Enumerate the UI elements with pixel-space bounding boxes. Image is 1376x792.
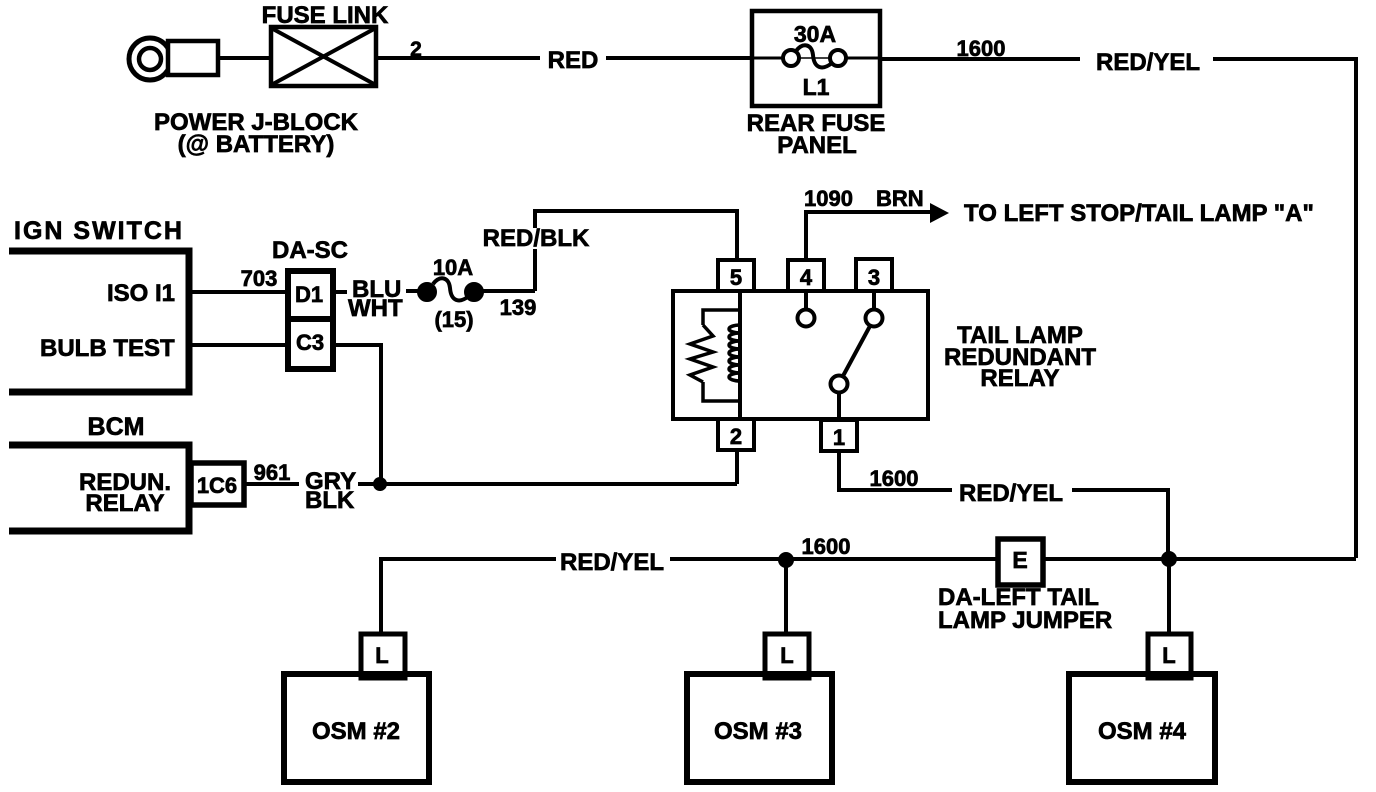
svg-text:BRN: BRN xyxy=(876,186,924,211)
wire GRY BLK to relay pin 2 xyxy=(358,482,737,486)
fuse link F (box with X) xyxy=(271,27,376,86)
OSM #4 box xyxy=(1069,674,1215,782)
relay coil bracket xyxy=(703,310,740,325)
wire rear fuse panel to RED/YEL xyxy=(880,57,1080,61)
svg-text:L1: L1 xyxy=(803,74,830,100)
svg-text:BCM: BCM xyxy=(88,413,145,441)
svg-text:RELAY: RELAY xyxy=(85,490,164,517)
relay common contact xyxy=(831,376,848,393)
wire RED/YEL to junction at OSM4 xyxy=(1072,490,1168,559)
svg-text:E: E xyxy=(1012,547,1027,573)
arrowhead xyxy=(930,203,949,223)
svg-text:4: 4 xyxy=(800,265,813,290)
svg-text:WHT: WHT xyxy=(348,295,403,322)
BCM box xyxy=(9,445,189,531)
svg-text:BLK: BLK xyxy=(305,487,355,514)
svg-text:5: 5 xyxy=(730,265,742,290)
svg-text:L: L xyxy=(1162,643,1175,668)
relay pin 3 xyxy=(856,259,892,291)
relay contact under pin 4 xyxy=(804,291,808,310)
svg-text:1090: 1090 xyxy=(804,186,853,211)
junction dot GRY BLK / C3 xyxy=(373,477,387,491)
relay coil resistor zigzag xyxy=(690,325,713,382)
bottom bus wire to E connector xyxy=(670,557,998,561)
connector L of OSM2 xyxy=(361,634,405,678)
wire C3 to junction xyxy=(332,345,381,484)
svg-text:10A: 10A xyxy=(433,255,473,280)
wire down to OSM4 xyxy=(1167,559,1171,636)
relay pin 5 xyxy=(718,260,754,291)
connector 1C6 xyxy=(191,463,244,505)
svg-text:L: L xyxy=(780,643,793,668)
wire 1C6 to GRY BLK xyxy=(244,482,299,486)
svg-text:RED/YEL: RED/YEL xyxy=(1096,49,1200,76)
svg-text:1C6: 1C6 xyxy=(197,473,237,498)
svg-text:TO LEFT STOP/TAIL LAMP "A": TO LEFT STOP/TAIL LAMP "A" xyxy=(964,200,1314,227)
relay coil winding xyxy=(729,325,740,381)
fuse L1 symbol xyxy=(752,45,880,67)
wire fuse to corner xyxy=(482,289,535,293)
svg-text:(@ BATTERY): (@ BATTERY) xyxy=(178,131,335,158)
svg-text:LAMP JUMPER: LAMP JUMPER xyxy=(938,607,1112,634)
OSM #3 box xyxy=(687,674,832,782)
connector L of OSM4 xyxy=(1148,634,1191,678)
power j-block body xyxy=(168,41,218,75)
wire BULB TEST to C3 xyxy=(189,343,286,347)
OSM #2 box xyxy=(284,674,429,782)
svg-text:OSM #3: OSM #3 xyxy=(714,718,802,745)
svg-text:RED/YEL: RED/YEL xyxy=(560,549,664,576)
svg-text:1: 1 xyxy=(833,425,845,450)
wire ISO I1 to D1 xyxy=(189,290,285,294)
svg-text:1600: 1600 xyxy=(802,534,851,559)
rear fuse panel box xyxy=(752,11,880,106)
relay contact under pin 3 xyxy=(872,291,876,310)
wire pin 2 down xyxy=(735,450,739,484)
svg-text:RED/YEL: RED/YEL xyxy=(959,480,1063,507)
wire fuse link to RED label xyxy=(376,56,540,60)
svg-text:OSM #4: OSM #4 xyxy=(1098,718,1187,745)
svg-text:RED: RED xyxy=(548,47,599,74)
wire D1 stub xyxy=(332,290,347,294)
svg-text:RELAY: RELAY xyxy=(980,365,1059,392)
svg-text:PANEL: PANEL xyxy=(777,132,857,159)
svg-text:961: 961 xyxy=(254,460,291,485)
svg-text:DA-SC: DA-SC xyxy=(272,237,348,264)
wire up and over to relay pin 5 xyxy=(535,211,737,291)
wire pin 4 to arrow xyxy=(806,212,932,260)
ring terminal (power j-block lug) xyxy=(129,38,171,80)
connector DA-SC outline xyxy=(288,271,333,369)
relay internal bus wire pin5-pin2 xyxy=(738,291,742,419)
svg-text:OSM #2: OSM #2 xyxy=(312,718,400,745)
svg-text:BULB TEST: BULB TEST xyxy=(40,335,175,362)
relay box (tail lamp redundant relay) xyxy=(673,291,928,419)
svg-text:ISO I1: ISO I1 xyxy=(107,280,175,307)
wire down to OSM3 xyxy=(784,559,788,636)
svg-text:C3: C3 xyxy=(296,330,324,355)
junction dot OSM4 xyxy=(1161,551,1177,567)
fuse 10A (in-line fuse) xyxy=(418,278,484,301)
svg-text:2: 2 xyxy=(410,38,422,61)
connector E (DA-left tail lamp jumper) xyxy=(998,539,1043,585)
svg-text:IGN SWITCH: IGN SWITCH xyxy=(14,217,184,245)
relay pin 1 xyxy=(821,420,857,451)
wire WHT to fuse dot xyxy=(406,289,421,293)
bottom RED/YEL bus wire left segment xyxy=(381,559,556,633)
svg-text:1600: 1600 xyxy=(870,466,919,491)
wire pin 1 down and right xyxy=(839,451,952,490)
svg-text:D1: D1 xyxy=(295,282,323,307)
bottom bus wire E to right corner xyxy=(1043,557,1356,561)
IGN SWITCH box xyxy=(9,251,189,392)
svg-text:(15): (15) xyxy=(434,307,473,332)
svg-text:L: L xyxy=(375,643,388,668)
label RED/BLK xyxy=(484,228,588,249)
svg-text:RED/BLK: RED/BLK xyxy=(483,225,590,252)
junction dot OSM3 xyxy=(778,552,794,568)
wire j-block to fuse link xyxy=(219,56,270,60)
svg-text:FUSE LINK: FUSE LINK xyxy=(262,2,389,29)
wire RED to rear fuse panel xyxy=(606,56,752,60)
relay pin 4 xyxy=(788,260,824,291)
svg-text:2: 2 xyxy=(730,424,742,449)
wire RED/YEL to right corner xyxy=(1213,59,1356,558)
svg-text:139: 139 xyxy=(500,295,537,320)
relay switch arm xyxy=(843,326,870,376)
svg-text:30A: 30A xyxy=(794,21,836,47)
svg-text:1600: 1600 xyxy=(957,36,1006,61)
svg-text:703: 703 xyxy=(241,266,278,291)
connector L of OSM3 xyxy=(765,634,809,678)
relay pin 2 xyxy=(718,419,754,450)
svg-text:3: 3 xyxy=(868,265,880,290)
